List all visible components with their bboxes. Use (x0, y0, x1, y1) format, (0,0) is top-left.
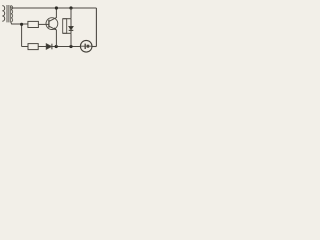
wire load bottom lead (70, 33, 72, 46)
background paper (0, 0, 100, 61)
node B junction dot (emitter to rail) (55, 45, 58, 48)
transistor Q1 base bar (48, 20, 50, 28)
node A junction dot base row (20, 23, 23, 26)
wire bottom rail left (22, 46, 28, 48)
wire left vertical drop (21, 24, 23, 46)
wire secondary top lead (10, 6, 12, 8)
transistor Q1 circle (46, 18, 58, 30)
resistor R2 (bottom) (28, 44, 38, 50)
transformer T1 core (7, 5, 9, 22)
wire right side vertical (95, 8, 97, 47)
earphone P1 circle (80, 40, 92, 52)
earphone P1 inner bar (84, 44, 86, 49)
wire top rail (11, 7, 97, 9)
wire load top lead (70, 8, 72, 19)
node D junction dot (collector to top rail) (55, 6, 58, 9)
transformer T1 secondary winding (11, 6, 13, 22)
earphone P1 inner blob (87, 45, 90, 48)
node E junction dot (load to top rail) (69, 6, 72, 9)
wire load top bar (63, 18, 71, 20)
wire bottom right segment (92, 46, 97, 48)
transformer T1 primary winding (2, 6, 4, 22)
wire secondary bottom to base row (11, 22, 28, 24)
wire base lead (38, 23, 48, 25)
wire load bottom bar (63, 32, 71, 34)
wire bottom rail middle (52, 46, 81, 48)
diode D1 (46, 44, 51, 50)
node C junction dot (load to rail) (69, 45, 72, 48)
resistor R1 (base) (28, 21, 39, 27)
wire R2 to diode (38, 46, 46, 48)
earphone P1 inner lines (81, 45, 92, 47)
transistor Q1 collector (49, 8, 57, 21)
diode D2 (vertical, parallel with R3) (70, 19, 72, 27)
resistor R3 (vertical box) (63, 19, 67, 34)
transistor Q1 emitter with arrow (49, 26, 57, 46)
